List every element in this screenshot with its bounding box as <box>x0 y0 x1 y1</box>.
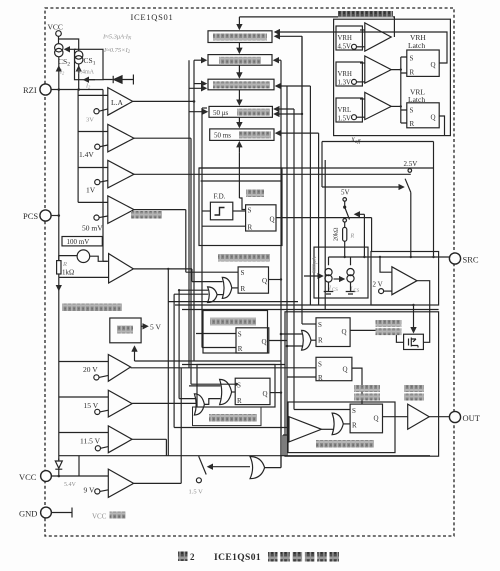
svg-text:VRH: VRH <box>338 35 352 42</box>
svg-text:50 ms: 50 ms <box>214 132 231 140</box>
timing block T1 <box>208 31 272 43</box>
svg-text:Q: Q <box>262 338 267 346</box>
wire GA out <box>311 339 316 341</box>
wire pwm latch S input <box>294 409 350 411</box>
wire lower input rail <box>59 276 109 278</box>
wire 11.5V + input <box>59 432 109 434</box>
arrow into CS2 <box>65 48 76 50</box>
rail y361 reference feed <box>135 360 282 362</box>
svg-text:S: S <box>352 407 356 415</box>
svg-text:Q: Q <box>343 366 348 374</box>
VRL latch box <box>407 103 439 128</box>
voltage source 100mV circle <box>59 250 108 263</box>
svg-text:R: R <box>352 422 357 430</box>
svg-text:20 V: 20 V <box>83 365 98 374</box>
wire latch B R input <box>287 376 316 378</box>
wire bus into T4 right lower <box>275 113 303 115</box>
wire switch box left to latch A Q <box>350 330 404 342</box>
svg-text:4.5V: 4.5V <box>338 44 351 51</box>
wire 15V output to G4 <box>132 402 197 404</box>
arrow into ICS1 <box>304 275 323 277</box>
right bus v302 <box>301 36 303 324</box>
blob M1 label gray <box>210 318 256 326</box>
left bus v194 <box>193 60 195 361</box>
or-gate G3 into L2 <box>220 379 232 404</box>
svg-text:Latch: Latch <box>408 95 425 104</box>
svg-text:I≈5.3μA·IN: I≈5.3μA·IN <box>102 34 132 42</box>
svg-text:R: R <box>318 374 323 382</box>
svg-text:50 μs: 50 μs <box>213 109 229 117</box>
blob pwm latch label gray <box>354 385 380 392</box>
wire VCC bus down to monitor comparators <box>58 290 60 460</box>
wire GB out to pwm latch R <box>343 423 350 425</box>
ref label box VRH 1.3V <box>336 62 362 86</box>
and-gate GB after C6 <box>332 413 343 435</box>
svg-text:Q: Q <box>374 415 379 423</box>
right bus v310 <box>309 86 311 305</box>
svg-text:VCC: VCC <box>48 23 63 32</box>
latch L2 <box>235 378 270 404</box>
svg-text:R: R <box>237 397 242 405</box>
left bus v189 <box>188 60 190 368</box>
right bus v287 <box>286 86 288 456</box>
long rail pair lower <box>175 305 439 310</box>
svg-text:VRL: VRL <box>338 107 352 114</box>
svg-text:11.5 V: 11.5 V <box>80 437 101 446</box>
edge detector F.D. box <box>210 202 232 220</box>
big frame gate control block <box>285 312 439 456</box>
arrow down on VCC bus below resistor <box>58 277 60 290</box>
arrow up on CS1 leg <box>78 67 80 72</box>
wire center drop into FF1 region <box>239 153 245 210</box>
svg-text:CS2: CS2 <box>58 57 70 68</box>
wire bus line y301 <box>168 301 298 303</box>
wire CS1 down to RZI rail <box>78 64 80 90</box>
blob reference label gray <box>117 326 133 334</box>
pin PCS <box>40 210 60 221</box>
comparator 100mV (PCS) <box>109 254 134 283</box>
ground ICS1 <box>324 282 334 294</box>
svg-text:VCC: VCC <box>92 513 107 521</box>
svg-text:SRC: SRC <box>463 255 479 265</box>
or-gate G2 <box>208 287 218 303</box>
svg-text:Xoff: Xoff <box>350 137 361 145</box>
svg-text:ICE1QS01: ICE1QS01 <box>214 553 261 563</box>
or-gate G1 into L0 R <box>222 277 232 298</box>
wire G1 upper input <box>192 281 223 283</box>
frame M2 overload counter <box>197 365 275 408</box>
VRH latch box <box>407 50 439 76</box>
pin GND <box>41 507 72 518</box>
wire 1V comparator output rail <box>134 173 411 175</box>
svg-text:1.5 V: 1.5 V <box>189 489 204 496</box>
svg-text:R: R <box>238 345 243 353</box>
blob power block header <box>338 11 393 18</box>
wire vertical link y455 to vcc rail <box>78 456 80 476</box>
wire G2 out to G1 input <box>217 294 223 296</box>
latch L1 <box>236 328 269 353</box>
arrow into reference box bottom <box>134 347 136 361</box>
pin OUT <box>449 411 460 422</box>
latch B <box>316 357 352 380</box>
arrow T3 to T4 <box>238 90 240 105</box>
svg-text:PCS: PCS <box>23 211 38 221</box>
left bus v174 <box>173 294 175 427</box>
svg-text:R: R <box>241 285 246 293</box>
arrow up into T5 bottom <box>238 142 240 152</box>
wire rail below power block <box>322 141 434 143</box>
svg-text:20kΩ: 20kΩ <box>334 227 340 241</box>
ref label box VRH 4.5V <box>336 26 362 50</box>
pin SRC <box>449 253 460 264</box>
current source ICS2 <box>347 269 354 283</box>
ref input circle 2 <box>352 79 365 84</box>
svg-text:L.A: L.A <box>111 98 123 107</box>
svg-text:GND: GND <box>19 509 37 519</box>
wire VCC rail <box>51 475 108 477</box>
wire bus into T3 left lower <box>189 87 206 89</box>
svg-text:3V: 3V <box>86 117 94 124</box>
wire pwm latch Q to driver <box>383 416 408 418</box>
svg-text:S: S <box>241 269 245 277</box>
blob driver label gray <box>404 385 424 392</box>
node SRC rail joins <box>344 256 346 258</box>
timing block T3 <box>208 79 274 90</box>
wire op-amp + input <box>380 257 392 272</box>
or-gate G5 <box>250 457 265 479</box>
current sense comparator C6 <box>289 417 321 442</box>
frame M1 restart timer <box>203 311 268 354</box>
comparator VRL1.5 <box>360 92 391 119</box>
timing block T2 <box>208 55 272 66</box>
wire bus into T4 left <box>189 111 207 113</box>
svg-text:2: 2 <box>190 552 195 562</box>
wire L.A output <box>133 100 194 102</box>
wire latch B Q to pwm latch <box>352 368 362 404</box>
svg-text:2 V: 2 V <box>373 281 383 289</box>
power block frame (top right) <box>334 19 451 135</box>
reference box 5V <box>110 318 141 343</box>
flip-flop FF1 box <box>246 205 276 231</box>
ground ICS2 <box>346 282 356 294</box>
timing block T5 <box>210 129 274 141</box>
wire 100mV comparator output to G1 <box>133 269 192 282</box>
wire CS2 down to RZI rail <box>58 57 60 90</box>
svg-text:CS: CS <box>332 288 338 293</box>
comparator 50mV <box>94 196 134 224</box>
svg-text:VCC: VCC <box>19 472 37 482</box>
wire 15V + input <box>59 396 109 398</box>
arrow ICS1 to ICS2 <box>334 278 345 280</box>
right bus v318 <box>318 133 320 305</box>
comparator 15V <box>95 390 132 417</box>
svg-text:5 V: 5 V <box>150 323 161 332</box>
wire bus into T4 right <box>275 108 295 110</box>
svg-text:50 mV: 50 mV <box>82 224 103 233</box>
comparator-shutdown label box <box>193 407 262 426</box>
comparator 1V <box>95 160 134 188</box>
arrow T4 to T5 <box>238 117 240 127</box>
svg-text:2.5V: 2.5V <box>404 160 418 168</box>
left bus v179 <box>178 290 180 398</box>
arrow into switch gate box <box>413 305 415 332</box>
svg-text:1V: 1V <box>86 186 96 195</box>
svg-text:Q: Q <box>431 61 436 69</box>
svg-text:5.4V: 5.4V <box>64 482 77 488</box>
wire comparator2 to latch bus <box>391 57 407 123</box>
chip outer dashed border <box>45 8 454 536</box>
right bus v325 <box>324 160 326 310</box>
comparator 1.4V <box>95 124 134 151</box>
svg-text:S: S <box>237 382 241 390</box>
wire right drop to SRC rail <box>433 142 435 258</box>
resistor R 1k <box>57 255 61 277</box>
wire FF1 R from left <box>202 225 246 227</box>
svg-text:R: R <box>318 337 323 345</box>
frame inner top line <box>201 180 282 182</box>
wire RZI to PCS column <box>103 90 108 262</box>
blob T2 text <box>219 57 261 64</box>
svg-text:R: R <box>248 224 253 232</box>
diode D1 at CS box output <box>103 75 133 85</box>
wire G1 out to L0 R <box>232 287 238 289</box>
node comparator3 join <box>391 105 401 107</box>
wire 20V output to latch B <box>131 367 316 369</box>
svg-text:S: S <box>248 207 252 215</box>
frame around error amplifier <box>371 252 439 306</box>
wire VRL latch Q stub <box>439 116 444 136</box>
svg-text:500μA: 500μA <box>312 256 318 273</box>
svg-text:1.4V: 1.4V <box>79 150 94 159</box>
comparator L.A <box>94 88 133 116</box>
frame around edge detector <box>199 168 282 246</box>
wire G5 output up <box>265 393 281 468</box>
wire L1 Q output <box>269 340 287 342</box>
error amplifier op-amp <box>392 267 417 295</box>
driver amplifier <box>408 404 430 429</box>
svg-text:I2: I2 <box>59 70 65 76</box>
current source CS1 in box <box>75 51 83 64</box>
rail y455 restart <box>59 455 430 457</box>
wire L1 S input <box>196 333 236 335</box>
or-gate G4 <box>194 394 204 415</box>
timing block T4 <box>209 106 272 117</box>
wire SRC rail <box>329 256 450 258</box>
ref 2V circle <box>379 289 392 294</box>
blob shutdown label gray <box>209 414 257 422</box>
svg-text:R: R <box>350 234 355 240</box>
svg-text:F.D.: F.D. <box>214 193 226 201</box>
soft switch box with mosfet <box>404 334 424 349</box>
pwm latch LC <box>350 404 382 433</box>
wire G3 upper input <box>189 385 220 387</box>
current source CS2 (VCC startup) <box>55 44 63 57</box>
svg-text:Q: Q <box>431 114 436 122</box>
wire mirror tops <box>329 257 351 265</box>
caption figure 2 <box>178 552 188 562</box>
wire VCC left bus down <box>58 90 60 261</box>
svg-text:Q: Q <box>262 277 267 285</box>
pin VCC <box>41 471 52 482</box>
wire 2.5V switch control <box>322 142 404 188</box>
wire 9V output up <box>134 368 182 484</box>
blob gate control label gray <box>376 320 402 327</box>
wire arrow into 1.5V switch <box>208 466 250 468</box>
blob flipflop label gray <box>246 190 264 198</box>
rail y364 <box>182 364 285 366</box>
wire bus into T5 right <box>276 132 319 134</box>
latch A <box>316 318 350 347</box>
wire C6 - input <box>283 435 289 456</box>
ref input circle 1 <box>352 44 365 49</box>
wire L0 Q output <box>269 279 282 281</box>
svg-text:0.4mA: 0.4mA <box>78 70 95 76</box>
wire L2 Q output <box>270 392 281 394</box>
box around CS1 <box>75 49 104 79</box>
wire into F.D. <box>202 210 210 212</box>
wire 50mV comparator output to error latch S <box>134 210 186 273</box>
svg-text:CS1: CS1 <box>84 56 96 67</box>
wire L1 R input <box>202 347 236 349</box>
ref label box VRL 1.5V <box>336 98 362 122</box>
svg-text:RZI: RZI <box>23 85 37 95</box>
wire C6 out to GB <box>321 428 333 430</box>
right bus v294 <box>293 109 295 410</box>
svg-text:1.3V: 1.3V <box>338 80 351 87</box>
svg-text:CS: CS <box>354 289 360 294</box>
svg-text:Q: Q <box>342 328 347 336</box>
svg-text:S: S <box>410 107 414 115</box>
svg-text:5V: 5V <box>341 189 350 197</box>
VCC internal supply terminal <box>56 31 62 44</box>
pin RZI <box>40 84 51 95</box>
blob error latch label gray <box>218 254 270 262</box>
wire VCC branch to CS1 box <box>59 39 79 51</box>
ref input circle 3 <box>352 115 365 120</box>
wire F.D. to FF1 S <box>233 210 246 212</box>
node RZI-CS junction <box>58 88 61 91</box>
arrow T2 to T3 <box>238 65 240 77</box>
svg-text:100 mV: 100 mV <box>67 238 90 246</box>
blob zero-cross gray <box>131 211 162 219</box>
left bus v202 <box>201 108 203 348</box>
wire G4 out to G3 input <box>204 399 220 405</box>
arrow on CS box bottom wire <box>84 79 95 81</box>
wire L0 S input <box>186 271 238 273</box>
right bus v281 <box>280 60 282 467</box>
svg-text:S: S <box>238 331 242 339</box>
comparator VRH1.3 <box>360 56 391 83</box>
arrow up on CS2 leg <box>58 67 60 72</box>
wire L2 S input <box>191 383 235 385</box>
wire 1.4V comparator output <box>134 138 191 384</box>
switch 1.5V soft start <box>196 456 206 483</box>
wire 11.5V output <box>132 439 166 455</box>
wire 20V + input <box>59 361 109 363</box>
comparator 11.5V <box>95 426 132 453</box>
arrow reference output 5V <box>141 325 147 327</box>
wire bus into T2 right <box>274 59 281 61</box>
svg-text:I2: I2 <box>85 84 91 90</box>
svg-text:15 V: 15 V <box>84 401 99 410</box>
svg-text:1kΩ: 1kΩ <box>62 269 74 277</box>
svg-text:Q: Q <box>263 390 268 398</box>
svg-text:S: S <box>318 361 322 369</box>
long rail upper <box>199 167 434 169</box>
wire bus into T3 left upper <box>194 83 206 85</box>
wire 5V switch control <box>355 213 364 215</box>
blob mains protection label gray <box>62 304 122 312</box>
inner frame pwm latch/driver <box>288 402 395 453</box>
svg-text:Latch: Latch <box>408 41 425 50</box>
diode D2 into VCC <box>55 459 62 477</box>
wire FF1 Q output <box>276 218 372 252</box>
svg-text:9 V: 9 V <box>84 486 95 495</box>
or-gate GA into latch A <box>302 330 311 350</box>
wire op-amp output down <box>417 281 430 343</box>
comparator 20V <box>94 355 131 382</box>
frame around current mirror <box>314 247 368 298</box>
wire G2 inputs <box>174 290 208 294</box>
svg-text:VRH: VRH <box>338 71 352 78</box>
error latch L0 <box>238 267 268 293</box>
svg-text:R: R <box>410 120 415 128</box>
box label 100 mV <box>62 237 102 246</box>
svg-text:S: S <box>410 55 414 63</box>
current source ICS1 <box>325 269 332 283</box>
svg-text:R: R <box>410 69 415 77</box>
svg-text:R: R <box>62 261 67 268</box>
arrow T1 to T2 <box>238 43 240 53</box>
switch 2.5V <box>405 169 412 257</box>
blob T1 text <box>213 34 267 41</box>
comparator VRH4.5 <box>360 23 391 51</box>
wire bus v304 into T1 right <box>275 36 302 114</box>
comparator 9V vcc monitor <box>95 469 134 497</box>
svg-text:OUT: OUT <box>463 413 481 423</box>
wire C6 + input rail <box>174 427 289 429</box>
wire bus into T2 left <box>194 59 206 61</box>
svg-text:S: S <box>318 321 322 329</box>
wire G4 input <box>179 398 196 400</box>
blob T3 text <box>213 81 270 88</box>
switch 5V <box>343 198 350 223</box>
wire from VRH latch Q wrap to T1 right <box>275 32 447 63</box>
wire RZI rail <box>51 89 103 91</box>
blob leading edge blanking label gray <box>316 440 374 448</box>
svg-text:I≈0.75×I2: I≈0.75×I2 <box>103 47 131 55</box>
wire latch A S input <box>302 323 316 325</box>
left bus v168 <box>167 269 169 456</box>
svg-text:1.5V: 1.5V <box>338 116 351 123</box>
resistor 20k <box>343 222 347 257</box>
wire bus into T3 right <box>276 85 310 87</box>
wire top feed into T1 <box>239 17 394 37</box>
svg-text:Q: Q <box>270 216 275 224</box>
wire GA inputs <box>281 334 303 346</box>
wire driver to OUT <box>429 416 449 418</box>
wire left sense bus to comparator inputs <box>78 90 108 203</box>
wire G3 out to L2 <box>232 391 236 393</box>
svg-text:ICE1QS01: ICE1QS01 <box>131 12 174 22</box>
